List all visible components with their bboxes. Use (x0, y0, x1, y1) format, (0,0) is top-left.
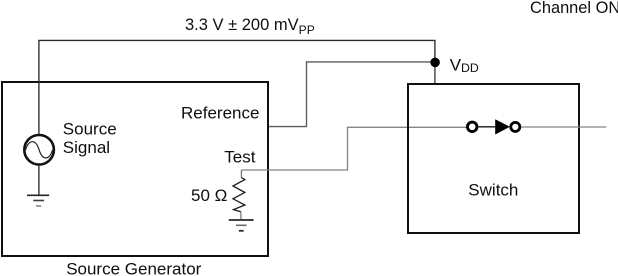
svg-text:Test: Test (224, 148, 255, 167)
switch arrow triangle (495, 119, 510, 134)
wire switch output right (521, 126, 606, 128)
wire Test to Switch (242, 127, 467, 170)
wire VDD stub into Switch box (434, 62, 436, 84)
box Switch (408, 84, 579, 233)
wire Reference to VDD node (269, 62, 431, 127)
svg-text:50 Ω: 50 Ω (191, 186, 227, 205)
svg-text:Source: Source (63, 119, 117, 138)
resistor R1 stub bottom (240, 212, 242, 220)
switch contact circle right (511, 122, 520, 131)
ground under resistor (229, 219, 254, 221)
node VDD dot (430, 58, 440, 68)
svg-text:Source Generator: Source Generator (66, 260, 201, 276)
ground under source (27, 194, 49, 196)
wire 3.3V supply top (39, 40, 435, 135)
source AC sine wave (26, 142, 53, 158)
svg-text:Channel ON: Channel ON (530, 0, 618, 17)
source AC symbol U1 circle (24, 135, 54, 165)
box Source Generator (2, 82, 268, 256)
svg-text:3.3 V ± 200 mVPP: 3.3 V ± 200 mVPP (185, 16, 315, 37)
svg-text:Signal: Signal (63, 138, 110, 157)
wire source to ground (38, 166, 40, 195)
switch contact circle left (467, 122, 477, 132)
resistor R1 zigzag (233, 178, 245, 212)
resistor R1 stub top (240, 170, 242, 178)
wire circle to triangle (479, 126, 496, 128)
svg-text:Switch: Switch (468, 181, 518, 200)
svg-text:Reference: Reference (181, 104, 259, 123)
